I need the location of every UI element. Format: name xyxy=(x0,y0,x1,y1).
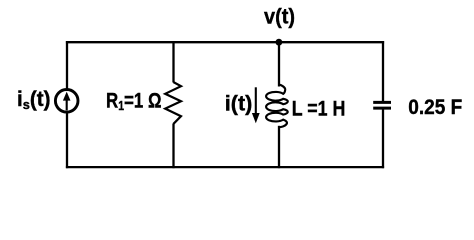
wire left branch upper segment xyxy=(66,41,68,88)
svg-text:v(t): v(t) xyxy=(264,6,295,29)
wire capacitor branch lower lead xyxy=(382,109,384,168)
inductor L coil loops xyxy=(266,85,288,128)
wire left branch lower segment xyxy=(66,113,68,168)
svg-text:L =1 H: L =1 H xyxy=(292,97,346,120)
wire inductor branch upper lead xyxy=(278,41,280,86)
svg-text:0.25 F: 0.25 F xyxy=(408,95,462,119)
wire resistor branch upper lead xyxy=(172,41,174,82)
current arrow i(t) xyxy=(252,87,260,123)
svg-text:i(t): i(t) xyxy=(225,93,253,116)
resistor R1 zigzag xyxy=(165,82,181,124)
capacitor C1 top plate xyxy=(373,101,391,104)
svg-text:is(t): is(t) xyxy=(17,88,51,112)
wire resistor branch lower lead xyxy=(172,124,174,169)
wire bottom rail xyxy=(66,166,384,168)
wire capacitor branch upper lead xyxy=(382,41,384,101)
wire inductor branch lower lead xyxy=(278,126,280,168)
wire top rail xyxy=(66,41,384,43)
node v(t) junction dot xyxy=(276,39,283,46)
svg-text:R1=1 Ω: R1=1 Ω xyxy=(106,89,162,113)
current source IS1 circle xyxy=(55,90,78,113)
current source IS1 arrow xyxy=(63,92,71,111)
capacitor C1 bottom plate xyxy=(373,107,391,110)
